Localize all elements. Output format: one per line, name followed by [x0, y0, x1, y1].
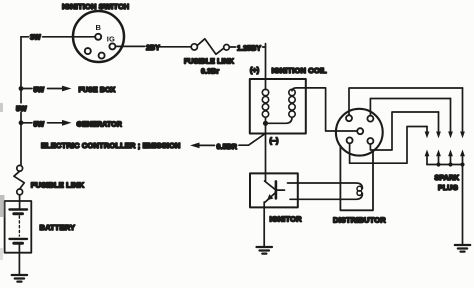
distributor terminal top-right — [367, 116, 373, 122]
junction dot coil (-) — [263, 121, 268, 126]
svg-text:SPARK: SPARK — [435, 175, 460, 182]
wire: fusible link to battery — [19, 195, 21, 210]
scan smudge left edge 3 — [0, 248, 3, 260]
wire: distributor BL terminal to spark plug 1 — [350, 127, 427, 164]
svg-text:DISTRIBUTOR: DISTRIBUTOR — [333, 215, 386, 224]
junction dot generator branch — [19, 120, 24, 125]
svg-text:B: B — [96, 23, 102, 32]
battery cell plate 4 short — [14, 242, 23, 245]
distributor terminal bottom-left — [347, 137, 353, 143]
wire: left bus top segment — [20, 37, 22, 86]
fusible link F1 right terminal — [224, 45, 230, 51]
wire: terminal IG to 2BY label — [115, 45, 144, 47]
battery cell plate 3 long — [10, 238, 28, 240]
ignition coil box — [250, 79, 306, 134]
svg-text:GENERATOR: GENERATOR — [77, 122, 122, 129]
wire: coil (+) lead into primary — [265, 79, 267, 90]
wire: 2BY to fusible link — [159, 46, 191, 48]
distributor body rectangle — [340, 146, 373, 211]
wire: spark plug common bus — [427, 165, 463, 245]
ignitor box — [250, 173, 298, 207]
wire: primary bottom to junction — [265, 117, 267, 123]
svg-text:5W: 5W — [34, 87, 45, 94]
fusible link F2 bottom terminal — [17, 189, 23, 195]
distributor terminal bottom-right — [367, 138, 373, 144]
switch pin lower-mid — [99, 53, 105, 59]
battery dashed middle — [18, 216, 20, 236]
wire: ignitor to pickup coil bottom — [290, 193, 362, 199]
switch pin lower-left — [85, 48, 91, 54]
junction dot plug2 — [436, 162, 440, 166]
svg-text:5W: 5W — [34, 121, 45, 128]
ignition switch SW body — [73, 11, 124, 62]
svg-text:ELECTRIC CONTROLLER ; EMISSION: ELECTRIC CONTROLLER ; EMISSION — [41, 141, 181, 150]
fusible link F2 zigzag — [14, 171, 24, 189]
svg-text:1.25BY: 1.25BY — [237, 45, 261, 52]
wire: branch to 5W fuse box — [21, 88, 32, 90]
distributor cap circle — [336, 109, 383, 156]
spark plug 3 gap — [448, 99, 453, 165]
arrow to electric controller — [190, 143, 200, 149]
transistor Q1 emitter with arrow — [265, 193, 275, 202]
transistor Q1 base bar — [275, 181, 278, 198]
transistor Q1 collector diagonal — [265, 181, 275, 189]
junction dot plug3 — [448, 162, 452, 166]
wire: battery to ground — [18, 243, 20, 274]
transistor Q1 base lead — [276, 189, 285, 191]
svg-text:(+): (+) — [250, 68, 259, 75]
wire: distributor TL terminal to spark plug 4 — [349, 88, 463, 115]
battery cell plate 2 short — [14, 212, 23, 215]
spark plug 1 gap — [425, 127, 430, 165]
coil secondary winding — [289, 89, 295, 117]
wire: fusible link to 1.25BY — [229, 46, 235, 48]
spark plug 2 gap — [436, 112, 441, 165]
svg-text:3W: 3W — [30, 35, 41, 42]
wire: bus segment to generator branch — [20, 113, 22, 121]
svg-text:PLUG: PLUG — [438, 185, 458, 192]
wire: distributor TR terminal to spark plug 3 — [370, 99, 450, 116]
junction dot fuse box branch — [19, 86, 24, 91]
distributor pickup coil — [357, 186, 362, 195]
scan smudge left edge 1 — [0, 195, 5, 217]
wire+arrow to GENERATOR — [48, 122, 64, 124]
coil primary winding — [262, 89, 268, 117]
svg-text:0.3Br: 0.3Br — [201, 69, 219, 76]
svg-text:IGNITION COIL: IGNITION COIL — [272, 66, 328, 75]
svg-text:FUSE BOX: FUSE BOX — [79, 87, 116, 94]
fusible link F1 left terminal — [191, 44, 197, 50]
svg-text:FUSIBLE LINK: FUSIBLE LINK — [31, 180, 85, 189]
svg-text:2BY: 2BY — [146, 45, 160, 52]
scan smudge left edge 2 — [0, 103, 3, 112]
label 5W (on bus) — [15, 104, 29, 113]
wire: coil (-) down to ignitor — [265, 123, 267, 181]
wire: arrow to 0.5BR — [199, 144, 215, 146]
terminal IG pin — [109, 43, 115, 49]
wire: 3W to terminal B — [43, 36, 96, 38]
ground: ignitor — [257, 247, 273, 254]
svg-text:BATTERY: BATTERY — [40, 223, 76, 232]
wire: branch to 5W generator — [21, 122, 32, 124]
distributor terminal top-left — [346, 115, 352, 121]
svg-text:FUSIBLE LINK: FUSIBLE LINK — [184, 58, 234, 65]
svg-text:IGNITOR: IGNITOR — [270, 214, 303, 223]
terminal B pin — [95, 34, 101, 40]
svg-text:IGNITION SWITCH: IGNITION SWITCH — [62, 2, 129, 11]
svg-text:(–): (–) — [270, 138, 279, 145]
wire: 1.25BY corner down to ignition coil (+) — [263, 44, 266, 79]
wire: distributor BR terminal to spark plug 2 — [370, 112, 438, 150]
wire+arrow to FUSE BOX — [48, 88, 64, 90]
spark plug 4 gap — [460, 88, 465, 165]
battery box — [5, 201, 32, 253]
wire: emitter down to ground — [263, 202, 265, 247]
wire: secondary bottom to junction — [266, 117, 293, 123]
wire: ignitor to pickup coil top — [288, 183, 363, 189]
svg-text:0.5BR: 0.5BR — [217, 144, 238, 151]
wire: coil secondary HT lead to distributor center — [292, 88, 357, 131]
battery cell plate 1 long — [10, 208, 28, 210]
wire: 0.5BR diagonal to coil (-) wire — [239, 134, 265, 145]
junction dot plug4 — [460, 162, 464, 166]
fusible link F2 top terminal — [17, 165, 23, 171]
wire: bus mid segment — [20, 89, 22, 104]
ground: spark plug — [455, 245, 470, 252]
wire: bus down to fusible link 2 — [20, 123, 21, 166]
ground: battery — [12, 275, 27, 282]
distributor center terminal — [357, 128, 363, 134]
fusible link F1 zigzag — [197, 39, 223, 55]
svg-text:IG: IG — [107, 34, 115, 43]
wire: bus to 3W label — [21, 36, 29, 38]
